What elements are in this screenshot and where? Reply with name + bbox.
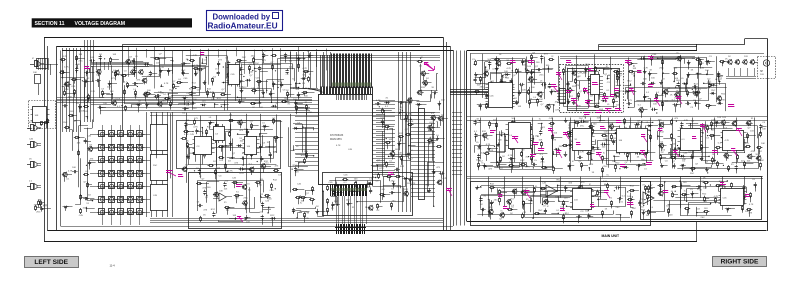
svg-text:2SC: 2SC <box>228 130 233 132</box>
svg-text:SP: SP <box>760 71 764 73</box>
svg-text:2SC: 2SC <box>38 200 43 202</box>
component area: mid-left ICs <box>181 115 283 180</box>
svg-text:VOLTAGE DIAGRAM: VOLTAGE DIAGRAM <box>75 21 126 27</box>
pink diagonal arrow <box>424 63 435 71</box>
svg-text:4.7K: 4.7K <box>486 144 491 146</box>
svg-text:10K: 10K <box>489 150 493 152</box>
svg-text:MAIN UNIT: MAIN UNIT <box>602 234 620 238</box>
transistor Q2 <box>130 69 135 75</box>
keypad col wires <box>103 125 140 225</box>
svg-text:4.7K: 4.7K <box>64 67 69 69</box>
MPU top comb tint <box>332 83 371 87</box>
IC U15 <box>721 131 747 151</box>
svg-text:10K: 10K <box>539 99 543 101</box>
svg-text:2SC: 2SC <box>284 98 289 100</box>
component area: audio band right <box>644 177 756 219</box>
svg-text:2SC: 2SC <box>659 67 664 69</box>
right mid frame wires <box>467 117 767 121</box>
right section left border <box>466 51 468 222</box>
component area: left top mid <box>121 54 236 115</box>
component area: MPU left area <box>288 103 314 176</box>
component area: left of keypad <box>62 111 98 217</box>
IC Q31 in PLL <box>588 75 603 95</box>
svg-text:10K: 10K <box>477 149 481 151</box>
svg-text:2SC: 2SC <box>392 201 397 203</box>
right border wire <box>767 39 769 232</box>
svg-text:11-4: 11-4 <box>110 264 116 268</box>
svg-text:10K: 10K <box>90 57 94 59</box>
transistor row Q10-Q13 <box>727 59 755 65</box>
bus into PLL area <box>560 57 695 59</box>
title bar <box>32 18 192 27</box>
svg-text:2SC: 2SC <box>391 181 396 183</box>
PLL label <box>572 73 588 75</box>
svg-text:2SC: 2SC <box>580 126 585 128</box>
component area: in box lower2 <box>329 175 412 212</box>
jack J5 <box>27 181 41 190</box>
section boundary bus v3 <box>450 46 452 231</box>
svg-text:2SC: 2SC <box>153 165 158 167</box>
module box C <box>151 185 168 211</box>
svg-text:10K: 10K <box>65 89 69 91</box>
svg-text:4.7K: 4.7K <box>228 171 233 173</box>
svg-text:MAIN MPU: MAIN MPU <box>330 138 342 141</box>
svg-text:2SC: 2SC <box>540 162 545 164</box>
component area: below MPU <box>292 182 333 222</box>
svg-text:2SC: 2SC <box>43 205 48 207</box>
svg-text:4.7K: 4.7K <box>749 204 754 206</box>
svg-text:2SC: 2SC <box>632 208 637 210</box>
component area: right sec top A <box>472 52 560 112</box>
IC U14 <box>678 129 703 151</box>
svg-text:4.7K: 4.7K <box>714 196 719 198</box>
svg-text:2SC: 2SC <box>181 70 186 72</box>
audio band box 2 <box>641 177 762 220</box>
component area: audio band <box>475 180 653 224</box>
title text VOLTAGE DIAGRAM <box>75 21 126 27</box>
bottom inner wire <box>61 226 454 228</box>
dashed module box <box>29 101 56 129</box>
svg-text:2SC: 2SC <box>539 75 544 77</box>
MPU IC5 body <box>319 95 373 185</box>
svg-text:10K: 10K <box>336 195 340 197</box>
IC U5 <box>243 137 260 155</box>
svg-text:2SC: 2SC <box>251 56 256 58</box>
edge connector comb <box>335 224 366 234</box>
svg-text:2SC: 2SC <box>701 217 706 219</box>
svg-text:10K: 10K <box>72 167 76 169</box>
svg-text:4.7K: 4.7K <box>160 67 165 69</box>
component area: right mid A <box>474 118 564 174</box>
svg-text:2SC: 2SC <box>480 86 485 88</box>
section boundary bus v2 <box>446 42 448 231</box>
IC U17 <box>570 189 594 210</box>
right section top wire 3 <box>745 38 768 40</box>
left border wire D <box>60 51 62 227</box>
svg-text:4.7K: 4.7K <box>193 55 198 57</box>
section boundary bus v1 <box>443 38 445 232</box>
bottom bus of left section <box>150 219 443 223</box>
svg-text:10K: 10K <box>555 197 559 199</box>
svg-text:10K: 10K <box>355 188 359 190</box>
svg-text:10K: 10K <box>761 143 765 145</box>
svg-text:10K: 10K <box>110 91 114 93</box>
IC U20 in dashed box <box>31 107 50 129</box>
svg-text:10K: 10K <box>666 206 670 208</box>
svg-text:10K: 10K <box>527 66 531 68</box>
title text SECTION 11 <box>35 21 65 27</box>
inner box border <box>122 44 124 130</box>
page number <box>110 264 116 268</box>
svg-text:10K: 10K <box>429 143 433 145</box>
module box A <box>151 125 168 151</box>
svg-text:2SC: 2SC <box>711 90 716 92</box>
connector J10 body <box>419 109 425 200</box>
svg-text:4.7K: 4.7K <box>595 103 600 105</box>
IC U19 <box>719 189 747 206</box>
hbus taps <box>91 62 149 70</box>
component area: MPU right area <box>371 97 419 186</box>
transistor row passives <box>726 56 756 79</box>
svg-text:2SC: 2SC <box>79 60 84 62</box>
svg-text:SECTION 11: SECTION 11 <box>35 21 65 27</box>
IC U11 <box>506 123 533 149</box>
svg-text:4.7K: 4.7K <box>302 68 307 70</box>
bus into IC U10 <box>450 90 488 95</box>
PLL connector <box>557 89 566 104</box>
MPU bottom comb tint <box>331 188 367 191</box>
svg-text:4.7K: 4.7K <box>443 178 448 180</box>
op-amp in lower box <box>213 193 232 201</box>
svg-text:10K: 10K <box>33 72 37 74</box>
svg-text:4.7K: 4.7K <box>68 171 73 173</box>
vertical wire bundle into MPU <box>290 52 331 93</box>
stepped top frame wires <box>599 45 698 51</box>
right section left border 2 <box>470 54 472 219</box>
component area: top of boundary <box>416 57 446 112</box>
svg-text:10K: 10K <box>627 196 631 198</box>
svg-text:2SC: 2SC <box>538 210 543 212</box>
right section bottom drop <box>696 222 698 242</box>
svg-text:2SC: 2SC <box>203 67 208 69</box>
svg-text:10K: 10K <box>189 153 193 155</box>
component area: left top right <box>235 51 314 115</box>
audio band box <box>471 182 651 226</box>
MPU right pins <box>372 101 395 175</box>
svg-text:LEFT SIDE: LEFT SIDE <box>34 259 68 266</box>
IC U3 <box>193 137 215 155</box>
IC U12 <box>571 129 595 151</box>
IC U4 <box>214 124 225 143</box>
PLL dotted box <box>560 65 624 113</box>
right feed bus verticals <box>457 51 465 226</box>
cluster left edge low <box>34 200 51 214</box>
svg-text:2SC: 2SC <box>559 146 564 148</box>
hbus upper <box>280 56 440 61</box>
svg-text:10K: 10K <box>76 64 80 66</box>
svg-text:10K: 10K <box>235 198 239 200</box>
component area: left top col <box>59 54 124 114</box>
jack J3 <box>27 139 41 148</box>
left mid bus <box>150 113 440 116</box>
mid bus wires left <box>57 98 312 103</box>
svg-text:2SC: 2SC <box>603 166 608 168</box>
MPU left pins <box>295 101 318 171</box>
svg-text:4.7K: 4.7K <box>336 145 341 147</box>
svg-text:2SC: 2SC <box>162 101 167 103</box>
transistor Q3 <box>138 69 143 75</box>
keypad switch matrix <box>97 131 144 215</box>
left border wire C <box>56 46 58 231</box>
svg-text:IC5 HD6433: IC5 HD6433 <box>330 134 344 137</box>
download stamp box <box>207 11 283 31</box>
stamp checkbox <box>273 13 279 19</box>
svg-text:2SC: 2SC <box>36 211 41 213</box>
svg-text:10K: 10K <box>539 140 543 142</box>
bottom frame wire 2 <box>44 241 697 243</box>
svg-text:10K: 10K <box>597 118 601 120</box>
svg-text:4.7K: 4.7K <box>379 168 384 170</box>
keypad row wires <box>90 135 150 213</box>
svg-text:4.7K: 4.7K <box>63 56 68 58</box>
svg-text:4.7K: 4.7K <box>580 152 585 154</box>
left border wire A <box>44 38 46 242</box>
svg-text:4.7K: 4.7K <box>376 100 381 102</box>
keypad bus verticals <box>147 112 173 217</box>
module box B <box>151 155 168 181</box>
left mid vertical wires <box>157 113 307 214</box>
svg-text:10K: 10K <box>116 98 120 100</box>
wire to speaker <box>754 62 758 64</box>
MAIN UNIT label <box>602 234 620 238</box>
svg-text:2SC: 2SC <box>494 199 499 201</box>
MPU top comb <box>321 54 372 89</box>
svg-text:2SC: 2SC <box>242 57 247 59</box>
svg-text:10K: 10K <box>409 121 413 123</box>
svg-text:4.7K: 4.7K <box>506 68 511 70</box>
op-amp U16 <box>540 185 563 197</box>
svg-text:10K: 10K <box>717 117 721 119</box>
right lower band vertical wires <box>489 177 745 217</box>
corridor tap ticks <box>452 113 462 175</box>
svg-text:2SC: 2SC <box>255 63 260 65</box>
svg-text:10K: 10K <box>219 190 223 192</box>
vertical bus left-centre <box>63 48 81 132</box>
svg-text:10K: 10K <box>760 160 764 162</box>
svg-text:RadioAmateur.EU: RadioAmateur.EU <box>208 21 278 31</box>
right section inner top <box>470 53 764 55</box>
svg-text:2SC: 2SC <box>243 198 248 200</box>
svg-text:2SC: 2SC <box>690 173 695 175</box>
right mid band vertical wires <box>481 118 755 172</box>
stamp text line2 <box>208 21 278 31</box>
component area: right sec top B <box>624 53 728 118</box>
svg-text:2SC: 2SC <box>501 133 506 135</box>
stamp text line1 <box>213 12 271 21</box>
svg-text:2SC: 2SC <box>616 207 621 209</box>
svg-text:4.7K: 4.7K <box>239 173 244 175</box>
svg-text:2SC: 2SC <box>647 192 652 194</box>
left section frame 4 <box>62 50 454 52</box>
bottom frame wire 1 <box>48 230 767 232</box>
left border wire B <box>47 46 49 231</box>
IC U10 <box>486 83 515 108</box>
svg-text:10K: 10K <box>504 71 508 73</box>
component area: right mid C <box>657 117 766 175</box>
LEFT SIDE button <box>25 257 79 268</box>
microphone connector J1 <box>30 58 49 70</box>
MPU second pin tier <box>337 94 367 100</box>
svg-text:10K: 10K <box>35 115 39 117</box>
right section top wire 2 <box>697 44 745 46</box>
left section outer top wire <box>44 37 444 39</box>
box lower centre 2 <box>323 173 413 216</box>
svg-text:10K: 10K <box>103 103 107 105</box>
svg-text:4.7K: 4.7K <box>589 164 594 166</box>
component area: right mid B <box>562 115 658 177</box>
svg-text:2SC: 2SC <box>408 113 413 115</box>
wire from J1 <box>44 64 58 75</box>
svg-text:2SC: 2SC <box>63 122 68 124</box>
svg-text:10K: 10K <box>398 153 402 155</box>
centre long verticals <box>399 52 411 212</box>
section boundary bus v4 <box>453 51 455 227</box>
svg-text:VCO CIRCUIT: VCO CIRCUIT <box>572 73 588 75</box>
svg-text:2SC: 2SC <box>707 82 712 84</box>
svg-text:4.7K: 4.7K <box>508 155 513 157</box>
box lower centre <box>189 173 282 229</box>
right section step v2 <box>744 39 746 45</box>
svg-text:2SC: 2SC <box>147 76 152 78</box>
volume pot VR1 <box>33 72 41 95</box>
right section bottom wire <box>467 221 768 223</box>
component area: PLL interior <box>563 64 624 111</box>
transistor Q1 <box>114 70 119 76</box>
svg-text:2SC: 2SC <box>579 118 584 120</box>
svg-text:RIGHT SIDE: RIGHT SIDE <box>721 259 759 266</box>
connector J10 pins <box>411 113 435 197</box>
speaker SP1 dotted box <box>758 57 776 79</box>
mid bus wires left 2 <box>100 108 310 111</box>
box mid left <box>177 121 281 169</box>
svg-text:4.7K: 4.7K <box>193 127 198 129</box>
vertical bus 2 <box>85 40 94 122</box>
svg-text:2SC: 2SC <box>334 201 339 203</box>
RIGHT SIDE button <box>713 257 767 267</box>
top bus wire drops <box>129 46 327 92</box>
svg-text:4.7K: 4.7K <box>725 140 730 142</box>
right top band vertical wires <box>483 54 717 112</box>
svg-text:4.7K: 4.7K <box>164 83 169 85</box>
svg-text:4.7K: 4.7K <box>303 88 308 90</box>
PLL inner box <box>568 69 620 111</box>
component area: bottom mid <box>196 178 278 227</box>
MPU right resistor packs <box>376 110 385 165</box>
svg-text:2SC: 2SC <box>721 99 726 101</box>
svg-text:10K: 10K <box>501 188 505 190</box>
component area: boundary lower <box>426 113 448 207</box>
right section top wire <box>467 50 697 52</box>
svg-text:4.7K: 4.7K <box>481 153 486 155</box>
svg-text:4.7K: 4.7K <box>91 91 96 93</box>
op-amp U18 <box>643 192 654 204</box>
IC U2 <box>227 65 243 87</box>
right lower band bus <box>467 177 763 179</box>
inner frame h <box>123 44 420 46</box>
svg-text:4.7K: 4.7K <box>525 167 530 169</box>
MPU bottom pin comb <box>331 184 367 196</box>
MPU IC5 label <box>330 134 353 151</box>
svg-text:10K: 10K <box>762 128 766 130</box>
IC U13 <box>617 126 648 155</box>
jack J2 <box>27 122 41 131</box>
jack J4 <box>27 159 41 168</box>
left section frame 3 <box>57 46 450 48</box>
MPU top pin band <box>321 87 373 95</box>
pink annotation marks <box>84 53 750 223</box>
right section step v <box>696 44 698 51</box>
wires MPU to edge connector <box>337 196 367 224</box>
